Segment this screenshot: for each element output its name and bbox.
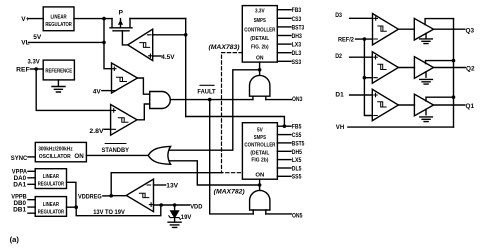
- wire ON1 net to OR gate: [170, 70, 259, 150]
- svg-text:(DETAIL: (DETAIL: [250, 151, 270, 157]
- wire STANDBY to oscillator: [86, 154, 148, 156]
- wire FAULT net: [170, 99, 253, 101]
- ground below driver U19: [420, 34, 433, 44]
- pin SS5: [277, 175, 291, 177]
- linear regulator U13: [35, 169, 66, 189]
- linear regulator U14: [35, 197, 66, 217]
- wire ON3 pin: [266, 99, 292, 101]
- node drain sense junction dot: [184, 33, 188, 37]
- node D3 label: [335, 12, 342, 19]
- wire drain rail to FB5: [186, 117, 285, 127]
- svg-text:REGULATOR: REGULATOR: [38, 182, 64, 188]
- svg-text:CONTROLLER: CONTROLLER: [244, 27, 275, 33]
- pin FB3: [277, 9, 291, 11]
- svg-text:Q3: Q3: [466, 28, 475, 35]
- wire D1 to comparator U18 plus: [350, 94, 373, 96]
- wire VDDREG to junction: [103, 195, 111, 197]
- comparator U18: [372, 89, 398, 120]
- node 13-19V rail label: [93, 209, 125, 216]
- svg-text:FB5: FB5: [292, 124, 302, 131]
- node DB1 label: [13, 207, 26, 214]
- wire SYNC to oscillator: [28, 156, 35, 158]
- label MAX782: [214, 189, 245, 195]
- ground below driver U21: [420, 109, 433, 121]
- wire comparator U15 output: [111, 195, 126, 197]
- node 5V junction dot: [102, 17, 106, 21]
- wire comparator U2 output to Q1 gate: [122, 31, 127, 45]
- node 5V output label: [33, 34, 42, 41]
- svg-text:P: P: [119, 10, 124, 17]
- svg-text:FB3: FB3: [292, 7, 302, 14]
- svg-text:V+: V+: [21, 16, 29, 23]
- wire comparator U2 plus input 4.5V: [153, 55, 161, 57]
- svg-text:LX5: LX5: [292, 157, 302, 164]
- driver U19: [414, 18, 433, 40]
- node VPPB label: [11, 193, 27, 200]
- svg-text:DA1: DA1: [13, 181, 26, 188]
- node V+ label: [21, 16, 29, 23]
- wire VPPB DB0 DB1 stubs: [28, 200, 35, 214]
- wire driver U20 output Q2: [434, 67, 466, 69]
- node REF junction dot: [34, 67, 38, 71]
- svg-text:DL5: DL5: [292, 166, 302, 173]
- node FAULT label with overline: [197, 88, 215, 95]
- oscillator U12: [35, 142, 86, 161]
- svg-text:3.3V: 3.3V: [28, 58, 41, 65]
- value label 13V: [166, 183, 178, 190]
- wire REF/2 to comparator U16 minus: [356, 38, 373, 40]
- svg-text:SS3: SS3: [292, 59, 302, 66]
- svg-text:FIG. 2b): FIG. 2b): [251, 45, 269, 51]
- svg-text:D1: D1: [335, 92, 344, 99]
- svg-text:SYNC: SYNC: [11, 155, 28, 162]
- svg-text:ON: ON: [256, 56, 264, 62]
- comparator U3 VL monitor: [112, 63, 138, 93]
- svg-text:STANDBY: STANDBY: [102, 147, 130, 154]
- and-gate U10 on5: [250, 190, 270, 210]
- wire D2 to comparator U17 plus: [350, 56, 373, 58]
- node DA0 label: [14, 175, 27, 182]
- wire comparator U5 output to AND gate: [137, 104, 150, 120]
- svg-text:(MAX782): (MAX782): [214, 189, 245, 195]
- svg-text:VH: VH: [336, 124, 345, 131]
- wire V+ to linear regulator U1: [29, 18, 44, 20]
- driver U20: [414, 57, 433, 79]
- pin CS3: [277, 17, 291, 19]
- svg-text:2.8V: 2.8V: [89, 128, 104, 135]
- pin FB5: [277, 125, 291, 127]
- svg-text:3.3V: 3.3V: [255, 8, 265, 14]
- node VL label: [21, 40, 29, 47]
- pin LX5: [277, 159, 291, 161]
- wire REF down to comparator U5 plus: [36, 69, 110, 110]
- pin BST5: [277, 142, 291, 144]
- transistor Q1 PMOS P: [110, 19, 132, 31]
- node VPPA label: [12, 169, 27, 176]
- pin CS5: [277, 134, 291, 136]
- node VL junction dot: [102, 41, 106, 45]
- svg-text:VDD: VDD: [190, 203, 202, 210]
- svg-text:VL: VL: [21, 40, 29, 47]
- value label 19V: [181, 214, 192, 221]
- svg-text:ON: ON: [255, 173, 264, 179]
- reference block U4: [43, 60, 74, 80]
- wire REF/2 to comparator U17 minus: [364, 77, 372, 79]
- pin DH5: [277, 150, 291, 152]
- ground below driver U20: [420, 72, 433, 84]
- node REF/2 lower junction dot: [363, 76, 367, 80]
- ground below zener: [168, 222, 181, 227]
- wire VDDREG riser to VDD rail: [111, 173, 222, 196]
- wire U10 input stubs: [253, 210, 266, 214]
- wire 2.8V to comparator U5 minus: [104, 128, 110, 130]
- comparator U17: [372, 52, 398, 83]
- wire driver U19 output Q3: [434, 28, 465, 30]
- svg-text:LINEAR: LINEAR: [43, 174, 59, 180]
- wire U8 input stubs: [253, 96, 266, 99]
- wire REF to reference block: [31, 68, 44, 70]
- wire U7 ON input stub: [259, 62, 261, 75]
- svg-text:REFERENCE: REFERENCE: [45, 68, 72, 74]
- transistor label P: [119, 10, 124, 17]
- node VH loop U21 junction dot: [452, 95, 456, 99]
- svg-text:LINEAR: LINEAR: [43, 202, 59, 208]
- node (a) label: [10, 235, 20, 244]
- and-gate U8 on3: [250, 75, 270, 96]
- pin DL3: [277, 52, 291, 54]
- wire FAULT down leg to gate U8: [210, 100, 254, 214]
- svg-text:SMPS: SMPS: [254, 135, 266, 141]
- svg-text:BST5: BST5: [292, 140, 305, 147]
- svg-text:D3: D3: [335, 12, 342, 19]
- value label 4V: [93, 89, 102, 96]
- node FAULT junction dot: [208, 98, 212, 102]
- comparator U15 VDD monitor: [126, 179, 153, 212]
- svg-text:5V: 5V: [257, 127, 263, 133]
- zener diode D1 19V: [169, 205, 181, 222]
- pin DH3: [277, 35, 291, 37]
- svg-text:ON5: ON5: [292, 212, 303, 219]
- node STANDBY label with overline: [102, 147, 130, 154]
- svg-text:CONTROLLER: CONTROLLER: [244, 143, 275, 149]
- wire 13V to comparator U15 minus: [154, 184, 166, 186]
- node ON5 net junction dot: [258, 183, 262, 187]
- wire comparator U2 minus input to drain rail: [153, 34, 186, 36]
- value label 4.5V: [161, 54, 175, 61]
- wire REF/2 rail down: [364, 39, 372, 115]
- node FB5 junction dot: [283, 124, 287, 128]
- dashed boundary MAX783: [222, 53, 243, 173]
- svg-text:REF/2: REF/2: [338, 36, 354, 43]
- node Q3 label: [466, 28, 475, 35]
- svg-text:13V: 13V: [166, 183, 178, 190]
- label MAX783: [209, 45, 240, 51]
- node DB0 label: [14, 200, 27, 207]
- svg-text:DL3: DL3: [292, 50, 302, 57]
- comparator U5 REF monitor: [111, 105, 137, 136]
- pin DL5: [277, 167, 291, 169]
- svg-text:Q1: Q1: [466, 103, 475, 110]
- node Q2 label: [466, 65, 475, 72]
- svg-text:DB1: DB1: [13, 207, 26, 214]
- svg-text:D2: D2: [335, 53, 342, 60]
- svg-text:FIG 2b): FIG 2b): [251, 157, 268, 163]
- or-gate U11 standby: [148, 146, 170, 164]
- svg-text:(MAX783): (MAX783): [209, 45, 240, 51]
- wire ON5 pin: [266, 213, 292, 215]
- svg-text:5V: 5V: [33, 34, 42, 41]
- svg-text:(DETAIL: (DETAIL: [250, 36, 270, 42]
- node VH label: [336, 124, 345, 131]
- svg-text:CS3: CS3: [292, 16, 302, 23]
- pin SS3: [277, 60, 291, 62]
- wire U9 ON input stub: [259, 179, 261, 189]
- wire VH bootstrap loop U21: [426, 97, 454, 101]
- comparator U2 gate drive: [128, 29, 153, 60]
- node SYNC label: [11, 155, 28, 162]
- node D1 label: [335, 92, 344, 99]
- wire VH rail: [453, 19, 455, 128]
- svg-text:REF: REF: [16, 67, 30, 74]
- node REF/2 junction dot: [363, 37, 367, 41]
- wire 4V to comparator U3 minus: [102, 90, 112, 92]
- wire 13-19V rail: [76, 205, 161, 216]
- svg-text:DH5: DH5: [292, 149, 302, 156]
- svg-text:(a): (a): [10, 235, 20, 244]
- wire U13 output down: [67, 182, 76, 207]
- svg-text:LINEAR: LINEAR: [51, 14, 67, 20]
- svg-text:ON3: ON3: [292, 96, 303, 103]
- svg-text:ON: ON: [74, 154, 83, 160]
- wire D3 to comparator U16 plus: [350, 17, 373, 19]
- node ON5 label: [292, 212, 303, 219]
- wire Q1 drain to vertical rail: [130, 18, 186, 20]
- svg-text:4.5V: 4.5V: [161, 54, 175, 61]
- svg-text:VDDREG: VDDREG: [78, 193, 102, 200]
- node VH loop U20 junction dot: [452, 59, 456, 63]
- pin LX3: [277, 43, 291, 45]
- node zener junction dot: [173, 203, 177, 207]
- wire comparator U15 plus to VDD: [154, 204, 190, 206]
- wire driver U21 output Q1: [434, 104, 465, 106]
- comparator U16: [373, 14, 399, 45]
- node ON3 net junction dot: [258, 68, 262, 72]
- wire regulator output to transistor Q1 source: [74, 18, 112, 20]
- svg-text:SS5: SS5: [292, 174, 302, 181]
- wire VH bootstrap loop U20: [426, 61, 454, 64]
- linear regulator U1: [43, 7, 74, 31]
- node VDDREG junction dot: [109, 194, 113, 198]
- node ON3 label: [292, 96, 303, 103]
- node DA1 label: [13, 181, 26, 188]
- node VDDREG label: [78, 193, 102, 200]
- value label 2.8V: [89, 128, 104, 135]
- svg-text:REGULATOR: REGULATOR: [38, 210, 64, 216]
- svg-text:BST3: BST3: [292, 24, 305, 31]
- svg-text:FAULT: FAULT: [197, 88, 215, 95]
- svg-text:SMPS: SMPS: [254, 18, 266, 24]
- wire U16 to driver U19: [398, 28, 414, 30]
- node VDD label: [190, 203, 202, 210]
- wire U18 to driver U21: [398, 104, 414, 106]
- node Q1 label: [466, 103, 475, 110]
- wire VL to 5V rail: [29, 41, 105, 43]
- svg-text:300kHz/200kHz: 300kHz/200kHz: [38, 146, 73, 152]
- svg-text:LX3: LX3: [292, 42, 302, 49]
- wire ON2 net to OR gate: [170, 161, 260, 185]
- wire 5V rail down to comparator U3: [104, 19, 112, 69]
- wire U17 to driver U20: [398, 67, 414, 69]
- svg-text:Q2: Q2: [466, 65, 475, 72]
- wire U14 output: [67, 206, 77, 208]
- driver U21: [414, 94, 433, 116]
- svg-text:DH3: DH3: [292, 33, 302, 40]
- node REF label: [16, 67, 30, 74]
- node VPP junction dot: [74, 205, 78, 209]
- wire VH bootstrap loop U19: [425, 19, 453, 25]
- ground below reference block: [52, 80, 65, 92]
- node rail junction dot: [159, 203, 163, 207]
- smps controller U9 5V: [242, 123, 277, 180]
- svg-text:19V: 19V: [181, 214, 192, 221]
- smps controller U7 3.3V: [242, 6, 277, 63]
- wire drain rail down: [185, 19, 187, 117]
- node D2 label: [335, 53, 342, 60]
- wire VPPA DA0 DA1 stubs: [28, 171, 35, 184]
- svg-text:REGULATOR: REGULATOR: [45, 22, 72, 28]
- node 3.3V label: [28, 58, 41, 65]
- svg-text:4V: 4V: [93, 89, 102, 96]
- node REF/2 label: [338, 36, 354, 43]
- wire comparator U3 output to AND gate: [138, 78, 150, 94]
- wire VH to rail: [348, 126, 454, 128]
- and-gate U6 fault: [150, 92, 171, 109]
- pin BST3: [277, 26, 291, 28]
- svg-text:CS5: CS5: [292, 132, 302, 139]
- svg-text:OSCILLATOR: OSCILLATOR: [39, 154, 71, 160]
